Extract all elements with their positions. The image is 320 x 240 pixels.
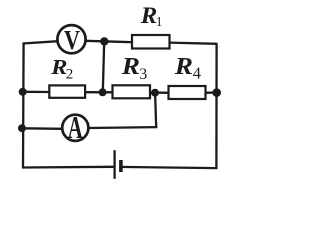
wire: vertical from top node down to R2/R3 node: [103, 41, 104, 92]
svg-text:A: A: [68, 109, 83, 145]
voltmeter: circle: [57, 25, 85, 53]
wire: left vertical branch: [22, 43, 25, 167]
resistor R2: [49, 85, 85, 97]
wire: bottom row, battery to right: [122, 167, 218, 168]
wire: row2 R3 to R4: [150, 91, 170, 94]
svg-text:2: 2: [66, 67, 74, 83]
wire: top row, R1 to right vertical: [169, 43, 217, 44]
node: top junction right of voltmeter: [100, 37, 108, 45]
wire: ammeter row, ammeter to riser corner: [88, 126, 157, 129]
svg-text:3: 3: [139, 66, 147, 83]
node: junction between R3 and R4: [151, 89, 159, 97]
wire: bottom row, left to battery: [22, 166, 114, 169]
node: ammeter row left junction: [18, 124, 26, 132]
ammeter: circle: [62, 115, 88, 141]
battery: long plate: [113, 150, 115, 179]
resistor R3: [113, 85, 151, 98]
svg-text:R: R: [174, 54, 193, 80]
svg-text:V: V: [64, 24, 80, 55]
resistor R4: [169, 86, 206, 99]
battery: short thick plate: [119, 160, 123, 172]
wire: riser from R3/R4 node down to ammeter row: [155, 93, 156, 128]
svg-text:R: R: [121, 54, 140, 80]
wire: ammeter row, left vertical to ammeter: [21, 127, 63, 130]
wire: right vertical branch: [215, 44, 218, 169]
wire: top row, voltmeter to R1: [85, 41, 133, 42]
wire: row2 left vertical to R2: [23, 91, 50, 93]
node: junction between R2 and R3: [99, 88, 107, 96]
wire: row2 R4 to right vertical: [205, 91, 217, 94]
svg-text:R: R: [140, 3, 158, 28]
wire: row2 R2 to R3: [85, 91, 113, 93]
wire: top row, left corner to voltmeter: [23, 41, 59, 43]
svg-text:1: 1: [156, 14, 163, 29]
resistor R1: [132, 35, 170, 49]
svg-text:4: 4: [193, 64, 201, 83]
node: row2 left junction: [19, 88, 27, 96]
node: row2 right junction: [212, 88, 221, 97]
